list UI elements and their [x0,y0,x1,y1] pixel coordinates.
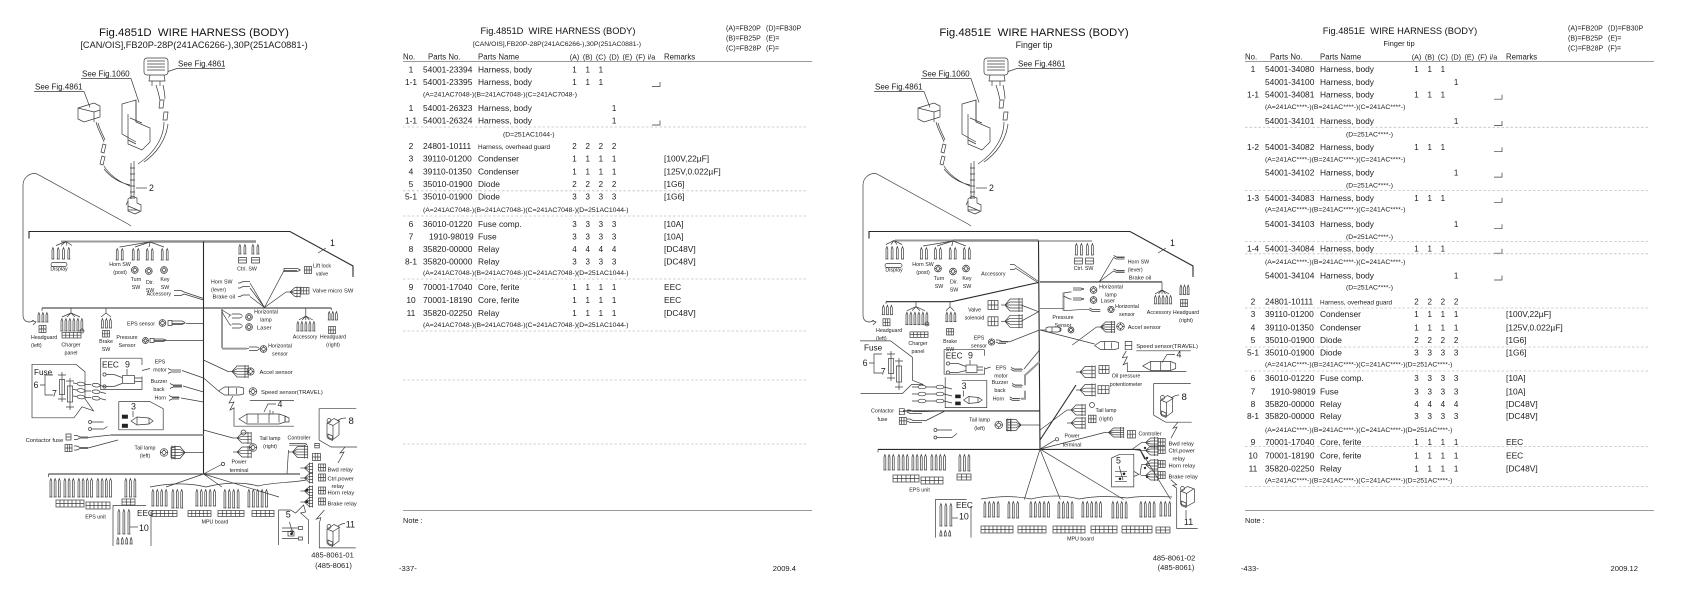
svg-text:3: 3 [1414,374,1419,383]
svg-text:Ctrl.power: Ctrl.power [1169,449,1195,455]
svg-text:(D=251AC****-): (D=251AC****-) [1346,131,1393,138]
svg-text:(B)=FB25P: (B)=FB25P [1568,36,1603,43]
svg-text:7: 7 [1251,386,1256,396]
connector Speed sensor (TRAVEL) [204,378,219,391]
svg-text:Fuse: Fuse [864,344,883,353]
svg-text:35820-00000: 35820-00000 [423,257,473,267]
svg-text:(E): (E) [623,53,633,62]
svg-text:4: 4 [612,245,617,254]
svg-text:Horizontal: Horizontal [1115,304,1139,310]
svg-text:54001-34083: 54001-34083 [1265,193,1315,203]
svg-text:[10A]: [10A] [1506,386,1526,396]
svg-text:1: 1 [572,296,577,305]
svg-text:1: 1 [1251,64,1256,74]
connector EPS motor [142,369,150,371]
svg-text:See Fig.4861: See Fig.4861 [875,83,923,92]
svg-text:Condenser: Condenser [1320,309,1361,319]
svg-text:Diode: Diode [478,179,500,189]
svg-text:(A)=FB20P: (A)=FB20P [726,26,761,33]
svg-text:1-1: 1-1 [405,116,417,126]
wire gray vertical right [1063,293,1065,311]
horn unit inside 3 [122,415,128,419]
svg-text:EEC: EEC [137,509,154,518]
svg-text:70001-18190: 70001-18190 [423,295,473,305]
connector Display right [886,241,902,245]
svg-text:Horn SW: Horn SW [1128,260,1150,266]
svg-text:24801-10111: 24801-10111 [1265,296,1313,306]
svg-text:2: 2 [1427,297,1432,306]
svg-text:1: 1 [612,309,617,318]
svg-text:1: 1 [1454,272,1459,281]
small connector left [78,103,100,122]
svg-text:3: 3 [585,258,590,267]
svg-text:Relay: Relay [478,244,500,254]
svg-text:1910-98019: 1910-98019 [1271,386,1316,396]
svg-text:Relay: Relay [478,257,500,267]
svg-text:(right): (right) [1179,318,1193,324]
svg-text:(right): (right) [1099,417,1113,423]
svg-text:3: 3 [1454,374,1459,383]
svg-text:1-4: 1-4 [1247,244,1259,254]
svg-text:(B): (B) [1425,53,1435,62]
svg-text:35820-00000: 35820-00000 [1265,411,1315,421]
svg-text:motor: motor [153,368,167,374]
svg-text:panel: panel [65,351,78,357]
svg-text:5-1: 5-1 [1247,347,1259,357]
svg-text:Controller: Controller [288,436,311,442]
connector EPS unit [48,474,50,477]
svg-text:Core, ferite: Core, ferite [1320,450,1362,460]
svg-text:(post): (post) [113,270,127,276]
svg-text:1: 1 [1454,451,1459,460]
svg-text:Turn: Turn [131,277,142,283]
connector Horn SW (lever) [238,282,250,289]
svg-text:Pressure: Pressure [1052,315,1073,321]
svg-text:1: 1 [1414,143,1419,152]
svg-text:Power: Power [231,460,246,466]
svg-text:Harness, body: Harness, body [478,116,533,126]
connector Valve micro SW [265,292,287,308]
svg-text:3: 3 [599,220,604,229]
harness wires loom [73,383,106,387]
svg-text:35820-00000: 35820-00000 [423,244,473,254]
svg-text:Fig.4851D WIRE HARNESS (BODY): Fig.4851D WIRE HARNESS (BODY) [99,27,289,39]
svg-text:1: 1 [1441,194,1446,203]
connector Horn SW (lever) right [1100,258,1114,282]
svg-text:EPS sensor: EPS sensor [127,322,155,328]
harness outline 1 [29,232,353,278]
box 5 right [1112,454,1139,487]
connector Turn SW right [935,248,937,259]
bracket [962,100,990,150]
svg-text:SW: SW [935,284,944,290]
svg-text:(A=241AC****-)(B=241AC****-)(C: (A=241AC****-)(B=241AC****-)(C=241AC****… [1265,207,1405,214]
leader curve to connector 2 [863,174,968,315]
svg-text:1: 1 [1454,169,1459,178]
svg-text:2: 2 [585,180,590,189]
svg-text:1: 1 [409,103,414,113]
svg-text:Laser: Laser [1101,299,1116,305]
svg-text:54001-34084: 54001-34084 [1265,244,1315,254]
svg-text:Finger tip: Finger tip [1016,40,1053,50]
svg-text:Fig.4851E WIRE HARNESS (BODY): Fig.4851E WIRE HARNESS (BODY) [1323,26,1477,36]
svg-text:24801-10111: 24801-10111 [423,141,471,151]
svg-text:Display: Display [885,268,903,274]
svg-text:3: 3 [1427,348,1432,357]
svg-text:Controller: Controller [1139,432,1162,438]
connector Tail lamp (right) right [1040,410,1067,430]
svg-text:1-1: 1-1 [405,77,417,87]
svg-text:4: 4 [1441,400,1446,409]
svg-text:8: 8 [1251,399,1256,409]
svg-text:(left): (left) [31,343,42,349]
svg-text:EPS unit: EPS unit [85,515,106,521]
box 4 [229,396,294,426]
svg-text:i/a: i/a [648,53,656,62]
svg-text:Dir.: Dir. [146,280,154,286]
svg-text:4: 4 [1427,400,1432,409]
svg-text:1-2: 1-2 [1247,142,1259,152]
svg-text:3: 3 [1251,309,1256,319]
svg-text:Dir.: Dir. [950,280,958,286]
svg-text:5-1: 5-1 [405,192,417,202]
svg-text:Key: Key [962,276,971,282]
svg-text:3: 3 [962,381,967,391]
svg-text:[1G6]: [1G6] [1506,335,1526,345]
svg-text:1: 1 [572,155,577,164]
svg-text:(D=251AC1044-): (D=251AC1044-) [503,132,555,139]
svg-text:panel: panel [912,349,925,355]
svg-text:(C)=FB28P: (C)=FB28P [726,46,762,53]
svg-text:7: 7 [409,232,414,242]
connector Accessory (far right) [1155,282,1169,294]
svg-text:EEC: EEC [956,501,973,510]
svg-text:1: 1 [1414,310,1419,319]
connector Key SW [161,249,163,260]
connector Brake SW right [946,302,954,311]
connector Headguard (left) right [885,302,887,304]
svg-text:1: 1 [612,168,617,177]
svg-text:Brake oil: Brake oil [1129,275,1152,281]
bus D [49,473,301,475]
svg-text:See Fig.4861: See Fig.4861 [35,83,83,92]
svg-text:(right): (right) [326,343,340,349]
svg-text:3: 3 [1441,387,1446,396]
svg-text:[DC48V]: [DC48V] [664,308,696,318]
svg-text:39110-01350: 39110-01350 [423,167,472,177]
svg-text:i/a: i/a [1490,53,1498,62]
svg-text:Core, ferite: Core, ferite [478,295,520,305]
connector Display [56,242,72,246]
connector Accel sensor right [1072,327,1096,345]
svg-text:(A=241AC****-)(B=241AC****-)(C: (A=241AC****-)(B=241AC****-)(C=241AC****… [1265,361,1452,368]
svg-text:No.: No. [403,53,415,62]
bus C right (ctrl sw line) [1039,240,1093,242]
svg-text:8-1: 8-1 [405,257,417,267]
svg-text:Horn relay: Horn relay [1169,464,1196,470]
svg-text:1: 1 [612,155,617,164]
svg-text:(D)=FB30P: (D)=FB30P [1608,26,1644,33]
svg-text:3: 3 [612,220,617,229]
svg-text:2: 2 [1414,336,1419,345]
svg-text:[DC48V]: [DC48V] [1506,399,1538,409]
svg-text:7: 7 [881,367,886,377]
svg-text:35820-00000: 35820-00000 [1265,399,1315,409]
svg-text:Ctrl. SW: Ctrl. SW [1074,266,1094,272]
main bus A right [895,240,1039,242]
connector Lift lock valve [265,271,285,308]
svg-text:sensor: sensor [1119,312,1135,318]
svg-text:1: 1 [1441,245,1446,254]
svg-text:(B): (B) [583,53,593,62]
svg-text:10: 10 [406,295,416,305]
connector Turn SW [132,249,134,260]
svg-text:5: 5 [1251,335,1256,345]
bus C gray [111,434,204,436]
svg-text:[125V,0.022µF]: [125V,0.022µF] [1506,322,1563,332]
svg-text:Relay: Relay [1320,399,1342,409]
svg-text:3: 3 [612,233,617,242]
svg-text:Turn: Turn [934,276,945,282]
svg-text:3: 3 [572,233,577,242]
svg-text:6: 6 [1251,373,1256,383]
svg-text:Accel sensor: Accel sensor [260,370,293,376]
svg-text:1: 1 [599,296,604,305]
svg-text:2: 2 [599,142,604,151]
svg-text:(F): (F) [636,53,645,62]
svg-text:Harness, overhead guard: Harness, overhead guard [478,144,551,151]
svg-text:[100V,22µF]: [100V,22µF] [1506,309,1551,319]
svg-text:Horn SW: Horn SW [211,280,233,286]
svg-text:1: 1 [1414,323,1419,332]
central trunk right [1039,241,1041,450]
svg-text:relay: relay [1173,457,1186,463]
svg-text:1: 1 [585,283,590,292]
svg-text:2: 2 [612,142,617,151]
box 11 right [1177,488,1198,528]
svg-text:2: 2 [1414,297,1419,306]
svg-text:Headguard: Headguard [876,328,902,334]
svg-text:(C)=FB28P: (C)=FB28P [1568,46,1604,53]
svg-text:10: 10 [1248,450,1258,460]
relay Ctrl.power right [1142,450,1146,452]
box 3 right [945,377,987,407]
svg-text:SW: SW [102,347,111,353]
svg-text:[100V,22µF]: [100V,22µF] [664,154,709,164]
svg-text:SW: SW [161,285,170,291]
svg-text:485-8061-01: 485-8061-01 [311,551,354,560]
svg-text:7: 7 [52,389,57,399]
svg-text:Fig.4851E WIRE HARNESS (BODY): Fig.4851E WIRE HARNESS (BODY) [939,27,1128,39]
svg-text:SW: SW [963,284,972,290]
box Fuse [32,364,94,418]
relay Brake relay right [1142,475,1146,477]
wire terminals [89,421,92,424]
svg-text:Harness, body: Harness, body [478,77,533,87]
svg-text:3: 3 [572,220,577,229]
svg-text:Harness, body: Harness, body [1320,271,1375,281]
connector 4 body [239,414,285,424]
svg-text:1: 1 [612,296,617,305]
svg-text:35010-01900: 35010-01900 [423,179,473,189]
svg-text:1: 1 [1454,220,1459,229]
svg-text:Headguard: Headguard [1173,310,1199,316]
svg-text:Horn: Horn [155,396,167,402]
svg-text:Brake: Brake [99,339,113,345]
svg-text:1: 1 [1414,438,1419,447]
svg-text:Buzzer: Buzzer [992,380,1009,386]
svg-text:54001-34100: 54001-34100 [1265,77,1315,87]
leader curve to connector 2 [23,174,128,315]
svg-text:Tail lamp: Tail lamp [1096,408,1117,414]
bracket [122,100,150,150]
svg-text:Parts No.: Parts No. [428,53,461,62]
svg-text:sensor: sensor [272,352,288,358]
svg-text:3: 3 [572,193,577,202]
connector MPU board right [1024,449,1170,499]
connector Laser right [1064,296,1072,299]
svg-text:(D=251AC****-): (D=251AC****-) [1346,285,1393,292]
svg-text:1: 1 [1170,238,1175,248]
label 2 [136,187,147,189]
connector Horn SW (post) right [921,248,923,259]
svg-text:-337-: -337- [399,564,417,573]
box 3 [119,402,163,430]
svg-text:valve: valve [316,272,328,278]
svg-text:1: 1 [612,117,617,126]
svg-text:Condenser: Condenser [478,154,519,164]
svg-text:Remarks: Remarks [664,53,695,62]
fan from bus junction [120,242,151,247]
connector Accel sensor [204,360,229,372]
svg-text:Parts Name: Parts Name [1320,53,1361,62]
svg-text:4: 4 [409,167,414,177]
svg-text:1910-98019: 1910-98019 [429,232,474,242]
box 11 [319,524,355,548]
label 2 [976,187,987,189]
svg-text:1: 1 [1427,91,1432,100]
svg-text:3: 3 [409,154,414,164]
svg-text:1: 1 [599,309,604,318]
box EEC 2 right [936,499,971,537]
svg-text:1: 1 [1454,323,1459,332]
svg-text:8-1: 8-1 [1247,411,1259,421]
svg-text:Diode: Diode [478,192,500,202]
key switch connector [984,58,1008,75]
svg-text:Relay: Relay [1320,464,1342,474]
svg-text:EEC: EEC [946,351,963,360]
svg-text:1: 1 [1427,245,1432,254]
svg-text:[CAN/OIS],FB20P-28P(241AC6266-: [CAN/OIS],FB20P-28P(241AC6266-),30P(251A… [80,40,307,50]
svg-text:(C): (C) [1438,53,1448,62]
svg-text:1: 1 [585,155,590,164]
svg-text:Fuse comp.: Fuse comp. [478,219,522,229]
connector Horizontal sensor [247,348,249,350]
svg-text:1: 1 [1427,323,1432,332]
svg-text:(A): (A) [1412,53,1422,62]
connector Headguard (left) [41,308,43,311]
svg-text:Sensor: Sensor [119,343,136,349]
svg-text:Speed sensor(TRAVEL): Speed sensor(TRAVEL) [261,390,323,396]
svg-text:8: 8 [1182,392,1187,403]
svg-text:2: 2 [1441,336,1446,345]
svg-text:54001-34082: 54001-34082 [1265,142,1315,152]
svg-text:1: 1 [1441,323,1446,332]
svg-text:[1G6]: [1G6] [664,192,684,202]
svg-text:[1G6]: [1G6] [664,179,684,189]
svg-text:(D): (D) [609,53,619,62]
svg-text:EEC: EEC [664,282,681,292]
svg-text:EEC: EEC [102,360,119,369]
small connector left [918,103,940,122]
svg-text:Ctrl. SW: Ctrl. SW [237,267,257,273]
connector Brake SW [101,308,111,317]
curl arrow [863,315,874,322]
connector Ctrl SW right [1076,244,1078,255]
svg-text:Condenser: Condenser [1320,322,1361,332]
svg-text:EPS unit: EPS unit [909,488,930,494]
svg-text:Horn: Horn [993,397,1005,403]
connector MPU board [166,474,279,497]
harness wrap segment [971,161,974,199]
connector Accessory (right) [299,308,313,320]
svg-text:Fuse comp.: Fuse comp. [1320,373,1364,383]
svg-text:(left): (left) [140,454,151,460]
svg-text:1: 1 [599,155,604,164]
connector EPS motor right [985,367,991,369]
connector Dir SW [146,249,148,260]
box 4 right [1122,351,1191,372]
svg-text:Diode: Diode [1320,335,1342,345]
svg-text:3: 3 [1414,387,1419,396]
connector Horizontal lamp right [1064,292,1072,293]
svg-text:10: 10 [139,523,149,533]
svg-text:1: 1 [585,78,590,87]
svg-text:6: 6 [409,219,414,229]
svg-text:1: 1 [612,104,617,113]
svg-text:Accessory: Accessory [147,292,172,298]
svg-text:35010-01900: 35010-01900 [1265,335,1315,345]
svg-text:Horn SW: Horn SW [912,262,934,268]
svg-text:1: 1 [1441,438,1446,447]
svg-text:back: back [994,388,1006,394]
svg-text:(F): (F) [1478,53,1487,62]
curl arrow [23,315,34,322]
svg-text:1: 1 [1441,465,1446,474]
svg-text:2: 2 [572,180,577,189]
svg-text:(A=241AC7048-)(B=241AC7048-)(C: (A=241AC7048-)(B=241AC7048-)(C=241AC7048… [423,92,577,99]
svg-text:Remarks: Remarks [1506,53,1537,62]
svg-text:35010-01900: 35010-01900 [1265,347,1315,357]
svg-text:6: 6 [863,358,868,368]
svg-text:4: 4 [1414,400,1419,409]
svg-text:solenoid: solenoid [965,316,985,322]
svg-text:Brake: Brake [943,339,957,345]
harness wrap segment [131,161,134,199]
svg-text:1: 1 [1454,465,1459,474]
svg-text:39110-01200: 39110-01200 [1265,309,1314,319]
svg-text:EEC: EEC [1506,437,1523,447]
svg-text:54001-23395: 54001-23395 [423,77,473,87]
svg-text:11: 11 [346,520,355,530]
svg-text:Core, ferite: Core, ferite [478,282,520,292]
svg-text:Charger: Charger [61,343,80,349]
connector Tail lamp (right) [204,430,234,438]
svg-text:3: 3 [1441,412,1446,421]
svg-text:Bwd relay: Bwd relay [1169,442,1195,448]
svg-text:Finger tip: Finger tip [1383,39,1414,48]
svg-text:potentiometer: potentiometer [1110,382,1143,388]
